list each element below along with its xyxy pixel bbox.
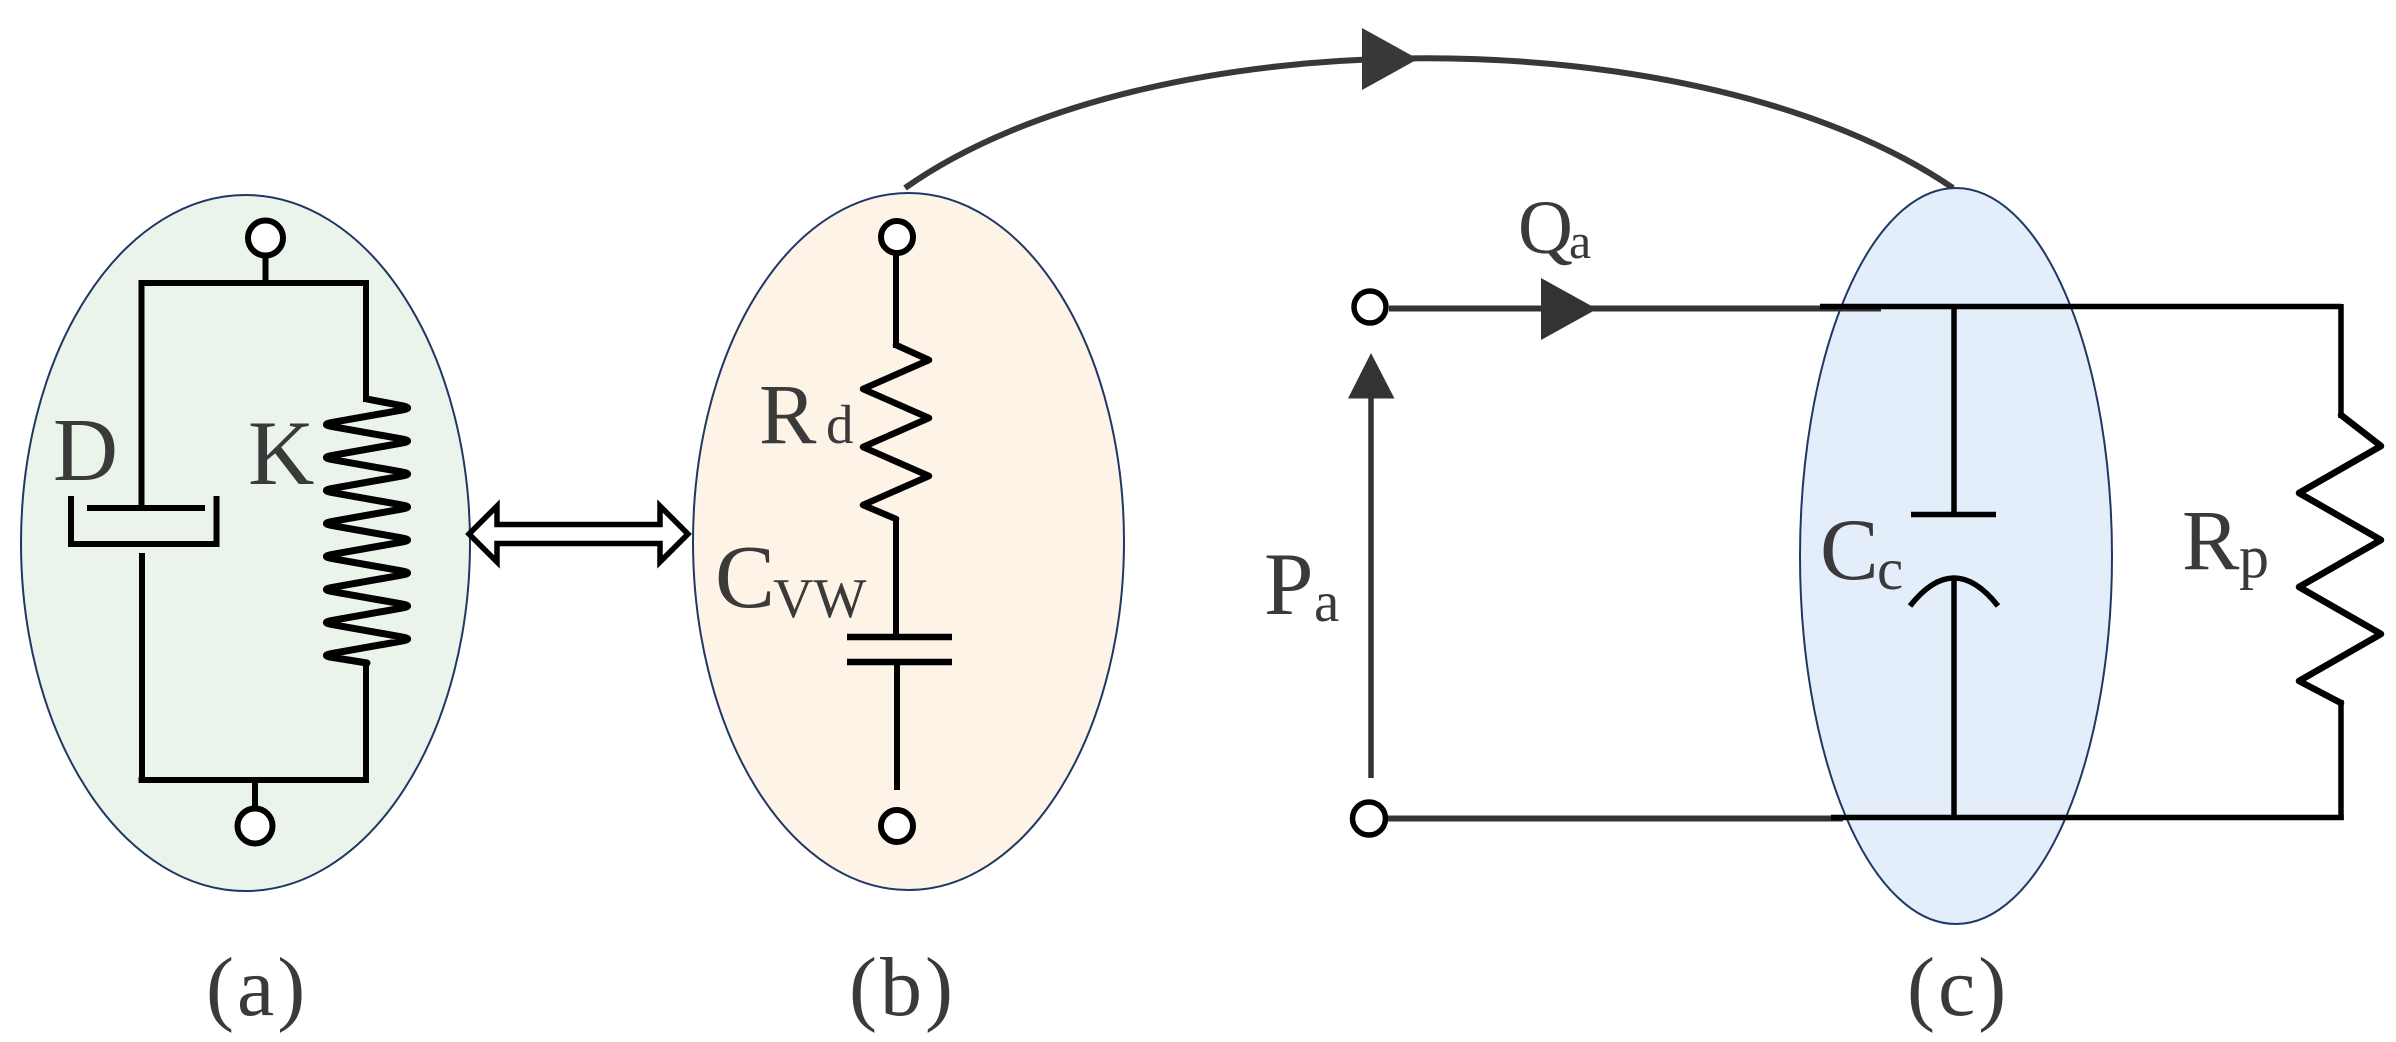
svg-text:C: C [1820,502,1879,599]
resistor Rp zigzag [2299,415,2381,703]
capacitor Cc top plate [1911,512,1996,518]
svg-text:p: p [2239,524,2269,590]
capacitor CVW bottom plate [847,659,952,666]
wire right lower (c) [2338,700,2344,820]
curved arrow from (b) to (c) [905,58,1953,188]
capacitor Cc top lead [1951,304,1957,514]
terminal top (b) [881,221,913,253]
curved arrow head [1362,28,1418,90]
svg-text:a: a [1569,213,1591,269]
damper D rod [139,280,145,508]
terminal top (a) [248,221,283,256]
capacitor CVW top plate [847,634,952,641]
damper D lower rod [139,553,145,783]
svg-text:C: C [715,528,775,627]
wire bottom gray (c) [1388,816,1843,822]
wire bottom (a) [139,777,370,783]
wire top gray (c) [1389,306,1881,312]
ellipse bubble (c) air cavity compliance [1800,188,2112,924]
wire top (b) [893,255,899,348]
capacitor Cc bottom lead [1951,579,1957,818]
double-headed arrow between (a) and (b) [469,506,688,562]
damper D piston plate [87,505,205,511]
svg-text:c: c [1877,536,1903,602]
wire stem top (a) [263,256,269,283]
terminal top-left (c) [1354,291,1386,323]
wire bottom black (c) [1831,815,2344,821]
wire top black (c) [1820,304,2342,310]
svg-text:(b): (b) [849,941,956,1034]
ellipse bubble (a) Kelvin-Voigt model [21,195,470,891]
wire stem bottom (a) [252,780,258,808]
svg-text:(a): (a) [206,941,308,1034]
svg-text:K: K [248,402,314,504]
spring K bottom lead [363,661,369,783]
capacitor Cc curved plate [1910,578,1998,606]
wire middle (b) [893,517,899,637]
arrow Qa [1541,278,1597,340]
ellipse bubble (b) Voigt viscoelastic circuit [693,193,1124,890]
terminal bottom (a) [238,809,273,844]
spring K top lead [363,280,369,402]
svg-text:a: a [1314,571,1339,634]
svg-text:VW: VW [773,568,866,630]
damper D cup [71,496,217,544]
wire bottom (b) [894,662,900,790]
arrow Pa vertical [1368,396,1374,778]
svg-text:d: d [826,394,854,455]
terminal bottom-left (c) [1353,802,1386,835]
svg-text:R: R [2182,492,2240,588]
terminal bottom (b) [881,810,913,842]
svg-text:(c): (c) [1907,941,2009,1034]
wire top (a) [139,280,370,286]
svg-text:P: P [1264,536,1314,634]
svg-text:Q: Q [1518,186,1573,270]
wire right upper (c) [2338,304,2344,418]
svg-text:R: R [759,366,817,462]
svg-text:D: D [53,401,118,500]
resistor Rd zigzag [863,345,929,519]
spring K coil [326,399,407,663]
